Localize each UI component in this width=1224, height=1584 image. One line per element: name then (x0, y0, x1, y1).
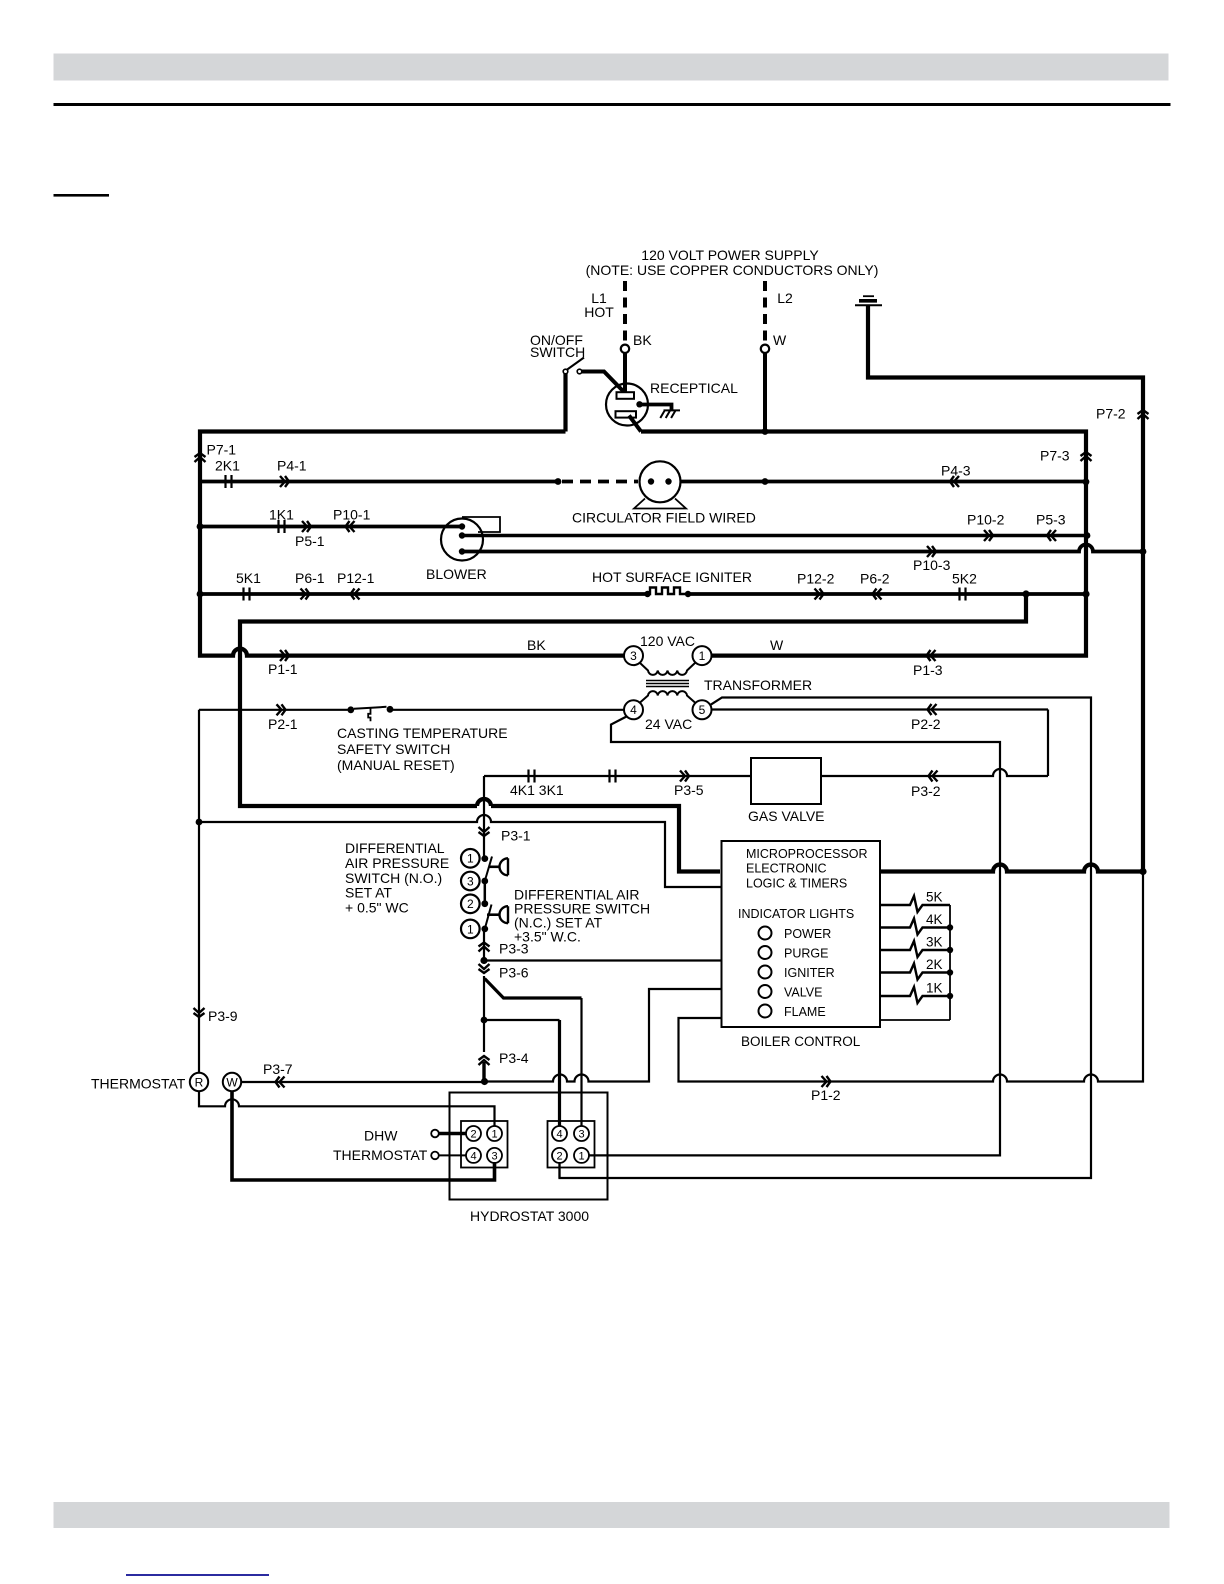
svg-text:RECEPTICAL: RECEPTICAL (650, 380, 738, 396)
svg-text:W: W (773, 332, 787, 348)
wire receptacle bottom to bus (629, 416, 641, 432)
svg-text:VALVE: VALVE (784, 986, 822, 1000)
svg-text:3K: 3K (926, 935, 943, 950)
connector P7-3 (1081, 452, 1092, 461)
connector P5-3 (1047, 530, 1056, 541)
wire switch down to bus (563, 374, 567, 432)
connector P12-1 (351, 589, 360, 600)
svg-text:1K: 1K (926, 981, 943, 996)
indicator light VALVE (759, 985, 772, 998)
wire transformer 5 second P2-2 (712, 708, 1049, 710)
svg-text:5K2: 5K2 (952, 571, 977, 587)
hydrostat 3000 box (450, 1093, 608, 1200)
wire 4K1 3K1 row (484, 775, 751, 777)
svg-text:P7-1: P7-1 (207, 442, 237, 458)
svg-text:SWITCH: SWITCH (530, 344, 585, 360)
terminal circle L2 W (761, 345, 769, 353)
svg-text:LOGIC & TIMERS: LOGIC & TIMERS (746, 877, 847, 891)
connector P3-1 (479, 827, 490, 836)
relay coil 5K (881, 896, 950, 912)
hydrostat terminal block right (548, 1121, 595, 1168)
connector P6-2 (873, 589, 882, 600)
wire switch to receptacle (582, 372, 624, 393)
svg-text:(MANUAL RESET): (MANUAL RESET) (337, 757, 455, 773)
wire P2-1 row casting switch (199, 709, 348, 711)
svg-text:DHW: DHW (364, 1128, 398, 1144)
svg-text:120 VAC: 120 VAC (640, 633, 695, 649)
wire circulator row right (680, 480, 1086, 484)
svg-text:INDICATOR LIGHTS: INDICATOR LIGHTS (738, 907, 854, 921)
svg-text:P3-5: P3-5 (674, 782, 704, 798)
gas valve (751, 758, 821, 804)
wire DHW a to terminal 2 (439, 1132, 466, 1135)
connector P3-2 (929, 771, 938, 782)
svg-text:P1-2: P1-2 (811, 1087, 841, 1103)
wire casting switch to transformer 4 (393, 709, 624, 711)
svg-text:BLOWER: BLOWER (426, 566, 487, 582)
diff switch N.O. blade (485, 857, 492, 882)
wire top bus left + left rail + row4 start (200, 432, 624, 656)
node P3-3 junction (480, 957, 487, 964)
svg-text:4: 4 (470, 1151, 476, 1163)
contact 1K1 (277, 520, 279, 533)
connector P10-3 (927, 546, 936, 557)
svg-text:SAFETY SWITCH: SAFETY SWITCH (337, 741, 450, 757)
wire P3-6 to hydrostat terminal 3 (485, 979, 582, 999)
terminal L1 (487, 1126, 502, 1141)
wire boiler control to right rail (881, 865, 1143, 872)
svg-text:ELECTRONIC: ELECTRONIC (746, 862, 827, 876)
svg-text:HOT: HOT (584, 304, 614, 320)
thermostat terminal R (190, 1073, 208, 1091)
casting temperature safety switch (347, 706, 354, 713)
svg-text:3: 3 (630, 649, 637, 663)
svg-text:L2: L2 (777, 290, 793, 306)
terminal L2 (466, 1126, 481, 1141)
svg-text:2K: 2K (926, 957, 943, 972)
wire L1 dashed supply (623, 281, 627, 345)
terminal L4 (466, 1148, 481, 1163)
relay coil 1K (881, 987, 950, 1003)
svg-text:P6-1: P6-1 (295, 570, 325, 586)
earth ground symbol (863, 295, 874, 297)
svg-text:MICROPROCESSOR: MICROPROCESSOR (746, 847, 868, 861)
transformer secondary terminal 5 (693, 700, 712, 719)
svg-text:+ 0.5" WC: + 0.5" WC (345, 900, 409, 916)
svg-text:4: 4 (556, 1129, 562, 1141)
svg-text:P10-3: P10-3 (913, 557, 951, 573)
svg-text:P10-2: P10-2 (967, 512, 1005, 528)
svg-text:P7-2: P7-2 (1096, 406, 1126, 422)
transformer secondary terminal 4 (624, 700, 643, 719)
wire P3-6 vertical continues (483, 976, 485, 1020)
svg-text:P5-3: P5-3 (1036, 512, 1066, 528)
wire DHW b to terminal 4 (439, 1154, 466, 1156)
svg-text:W: W (770, 637, 784, 653)
connector P4-1 (280, 476, 289, 487)
wire igniter row left (200, 592, 648, 596)
svg-text:3: 3 (467, 874, 474, 888)
wire P3-3 to boiler control (484, 959, 721, 961)
wire P3-4 vertical (483, 1020, 485, 1052)
diff switch N.C. terminal 2 (461, 895, 480, 914)
wire circulator row dashed field wiring (562, 480, 638, 484)
wire blower feed row (200, 525, 462, 529)
svg-text:IGNITER: IGNITER (784, 966, 835, 980)
connector P3-9 (194, 1008, 205, 1017)
wire between switch sections (484, 881, 487, 904)
svg-text:4K: 4K (926, 912, 943, 927)
switch blade (567, 358, 585, 371)
wire thermostat row to boiler control (485, 989, 721, 1082)
indicator light PURGE (759, 946, 772, 959)
svg-text:P1-3: P1-3 (913, 662, 943, 678)
wire igniter row right (688, 592, 1086, 596)
diff switch N.C. blade (485, 905, 492, 929)
terminal L3 (487, 1148, 502, 1163)
wire hydrostat 2 to relay (558, 1163, 560, 1178)
wire P3-4 stem (482, 1062, 485, 1082)
svg-text:TRANSFORMER: TRANSFORMER (704, 677, 812, 693)
svg-text:P4-1: P4-1 (277, 458, 307, 474)
wire blower return row P10-2/P5-3 (462, 534, 1087, 537)
wire igniter junction to boiler control feed (240, 594, 1026, 872)
svg-text:1: 1 (699, 649, 706, 663)
svg-text:P10-1: P10-1 (333, 507, 371, 523)
connector P3-7 (276, 1077, 285, 1088)
connector P3-6 (479, 964, 490, 973)
svg-text:P5-1: P5-1 (295, 533, 325, 549)
wire rail branch to boiler control (199, 815, 721, 887)
terminal R4 (552, 1126, 567, 1141)
svg-text:DIFFERENTIAL: DIFFERENTIAL (345, 840, 445, 856)
wire ground to right rail (868, 305, 1143, 871)
svg-text:P3-6: P3-6 (499, 965, 529, 981)
diff switch N.O. terminal 1 (461, 849, 480, 868)
svg-text:P2-1: P2-1 (268, 716, 298, 732)
svg-text:BK: BK (527, 637, 546, 653)
svg-text:HYDROSTAT 3000: HYDROSTAT 3000 (470, 1208, 589, 1224)
short rule under header (54, 194, 110, 197)
wire P3-1 vertical (483, 776, 485, 859)
wire transformer 5 to relay common (560, 698, 1092, 1179)
svg-text:2: 2 (556, 1151, 562, 1163)
page top rule (54, 103, 1171, 106)
wire left 24V rail down (198, 710, 200, 1073)
svg-text:1: 1 (578, 1151, 584, 1163)
connector P1-2 (822, 1076, 831, 1087)
wire top bus right + right mid rail + W row (641, 432, 1086, 656)
receptacle RECEPTICAL (606, 384, 648, 426)
svg-text:2: 2 (467, 897, 474, 911)
svg-text:3: 3 (491, 1151, 497, 1163)
svg-text:4: 4 (630, 703, 637, 717)
svg-text:POWER: POWER (784, 927, 831, 941)
connector P6-1 (301, 589, 310, 600)
wire thermostat W to hydrostat 3 (232, 1092, 495, 1181)
wire L1 to receptacle (623, 353, 627, 393)
wire P3-3 vertical (483, 929, 485, 961)
svg-text:SET AT: SET AT (345, 885, 392, 901)
svg-text:2: 2 (470, 1129, 476, 1141)
wire P2-2 corner down to gas valve return (1047, 710, 1049, 777)
circulator motor (640, 461, 681, 502)
svg-text:AIR PRESSURE: AIR PRESSURE (345, 855, 449, 871)
svg-text:P3-4: P3-4 (499, 1050, 529, 1066)
relay coil 2K (881, 964, 950, 980)
connector P3-3 (479, 943, 490, 952)
svg-text:5: 5 (699, 703, 706, 717)
svg-text:1: 1 (467, 922, 474, 936)
svg-text:GAS VALVE: GAS VALVE (748, 808, 825, 824)
svg-text:PURGE: PURGE (784, 947, 828, 961)
connector P5-1 (302, 521, 311, 532)
svg-text:P4-3: P4-3 (941, 463, 971, 479)
diff switch N.O. terminal 3 (461, 872, 480, 891)
svg-text:2K1: 2K1 (215, 458, 240, 474)
terminal circle L1 BK (621, 345, 629, 353)
DHW thermostat terminal b (431, 1152, 439, 1160)
wire thermostat W row (242, 1081, 486, 1083)
contact 4K1 (527, 770, 529, 783)
svg-text:CIRCULATOR FIELD WIRED: CIRCULATOR FIELD WIRED (572, 510, 756, 526)
connector P2-1 (277, 704, 286, 715)
connector P4-3 (950, 476, 959, 487)
DHW thermostat terminal a (431, 1130, 439, 1138)
wire transformer 4 to hydrostat (589, 717, 1000, 1156)
svg-text:5K: 5K (926, 890, 943, 905)
svg-text:P7-3: P7-3 (1040, 448, 1070, 464)
wire receptacle to chassis ground (640, 405, 672, 411)
connector P1-1 (280, 650, 289, 661)
svg-text:CASTING TEMPERATURE: CASTING TEMPERATURE (337, 725, 508, 741)
wire L2 down to bus (763, 353, 767, 432)
connector P10-2 (984, 530, 993, 541)
indicator light POWER (759, 927, 772, 940)
svg-text:HOT SURFACE IGNITER: HOT SURFACE IGNITER (592, 569, 752, 585)
connector P2-2 (928, 704, 937, 715)
svg-text:P12-1: P12-1 (337, 570, 375, 586)
connector P3-4 (479, 1056, 490, 1065)
svg-text:P6-2: P6-2 (860, 571, 890, 587)
wire circulator row solid left (200, 480, 558, 484)
wire P1-2 loop (679, 872, 1144, 1082)
indicator light IGNITER (759, 966, 772, 979)
svg-text:5K1: 5K1 (236, 570, 261, 586)
thermostat terminal W (223, 1073, 241, 1091)
relay coil 4K (881, 919, 950, 935)
svg-text:BK: BK (633, 332, 652, 348)
svg-text:1: 1 (491, 1129, 497, 1141)
svg-text:FLAME: FLAME (784, 1005, 826, 1019)
transformer primary terminal 3 (624, 646, 643, 665)
svg-text:R: R (195, 1076, 204, 1090)
svg-text:(NOTE: USE COPPER CONDUCTORS O: (NOTE: USE COPPER CONDUCTORS ONLY) (586, 262, 879, 278)
contact 2K1 (224, 475, 226, 488)
svg-text:THERMOSTAT: THERMOSTAT (333, 1147, 428, 1163)
connector P7-1 (195, 453, 206, 462)
indicator light FLAME (759, 1005, 772, 1018)
svg-text:P12-2: P12-2 (797, 571, 835, 587)
hydrostat terminal block left (461, 1121, 508, 1168)
svg-text:W: W (226, 1076, 238, 1090)
svg-text:BOILER CONTROL: BOILER CONTROL (741, 1034, 861, 1049)
wire to hydrostat terminal 4 (484, 1019, 560, 1021)
transformer primary terminal 1 (693, 646, 712, 665)
switch ON/OFF terminals (563, 369, 568, 374)
svg-text:P3-1: P3-1 (501, 828, 531, 844)
svg-text:1: 1 (467, 852, 474, 866)
wire thermostat R to hydrostat 1 (199, 1092, 495, 1127)
transformer T1 (640, 663, 696, 675)
wire L2 dashed supply (763, 281, 767, 345)
contact 5K2 (958, 588, 960, 601)
connector P3-5 (680, 771, 689, 782)
connector P12-2 (815, 589, 824, 600)
boiler control box (722, 841, 881, 1027)
blower motor (441, 519, 483, 561)
svg-text:P3-7: P3-7 (263, 1061, 293, 1077)
svg-text:1K1: 1K1 (269, 507, 294, 523)
connector P10-1 (346, 521, 355, 532)
wire coil bus (949, 905, 951, 1020)
svg-text:120 VOLT POWER SUPPLY: 120 VOLT POWER SUPPLY (641, 247, 819, 263)
footer blue rule (126, 1574, 269, 1576)
svg-text:P3-9: P3-9 (208, 1008, 238, 1024)
svg-text:3: 3 (578, 1129, 584, 1141)
chassis ground hatch (660, 410, 680, 418)
svg-text:P1-1: P1-1 (268, 661, 298, 677)
wire blower second return P10-3 (462, 545, 1143, 552)
contact 5K1 (242, 588, 244, 601)
svg-text:24 VAC: 24 VAC (645, 716, 692, 732)
terminal R1 (574, 1148, 589, 1163)
connector P1-3 (927, 650, 936, 661)
wire coil return (881, 1019, 950, 1021)
diff switch N.C. terminal 1 (461, 920, 480, 939)
page top gray bar (54, 54, 1169, 81)
terminal R2 (552, 1148, 567, 1163)
svg-text:P3-2: P3-2 (911, 783, 941, 799)
terminal R3 (574, 1126, 589, 1141)
page bottom gray bar (54, 1502, 1170, 1528)
contact 3K1 (608, 770, 610, 783)
wire gas valve to P3-2 (821, 769, 1048, 776)
relay coil 3K (881, 941, 950, 957)
svg-text:4K1 3K1: 4K1 3K1 (510, 782, 564, 798)
svg-text:THERMOSTAT: THERMOSTAT (91, 1076, 186, 1092)
connector P7-2 (1138, 410, 1149, 419)
svg-text:P2-2: P2-2 (911, 716, 941, 732)
svg-text:P3-3: P3-3 (499, 941, 529, 957)
